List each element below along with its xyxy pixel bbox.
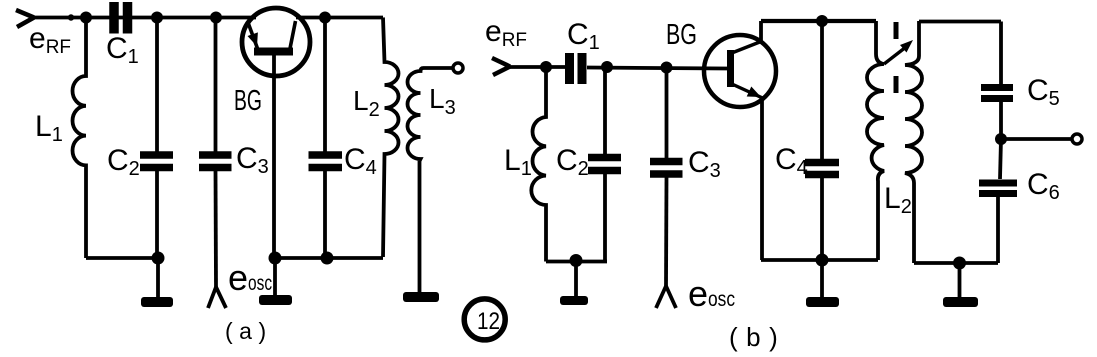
inductor L2 (a) — [383, 18, 399, 258]
svg-text:C2: C2 — [556, 144, 589, 180]
ground tank2 (b) — [943, 297, 978, 307]
svg-text:C4: C4 — [775, 143, 808, 179]
ground stub left (a) — [156, 258, 160, 297]
transformer core dash upper — [894, 22, 899, 39]
wire bottom rail (b left) — [546, 260, 607, 264]
svg-text:L2: L2 — [884, 182, 912, 218]
capacitor C1 (b) — [570, 53, 583, 84]
transformer adjust arrow — [884, 40, 913, 64]
wire base lead (a) — [272, 55, 276, 258]
node C2 top (b) — [601, 61, 613, 73]
capacitor C2 (b) — [588, 67, 621, 262]
node base bottom (a) — [269, 252, 282, 265]
wire tank1 top rail (b) — [761, 19, 876, 23]
svg-text:C4: C4 — [344, 143, 377, 179]
svg-text:eosc: eosc — [688, 273, 735, 314]
svg-text:L3: L3 — [429, 83, 456, 119]
svg-text:C5: C5 — [1027, 74, 1060, 110]
svg-text:L1: L1 — [35, 110, 63, 146]
node C2 top (a) — [151, 12, 163, 24]
wire tank2 right side upper (b) — [999, 22, 1003, 85]
svg-text:eosc: eosc — [228, 257, 272, 298]
svg-text:BG: BG — [666, 19, 697, 51]
transistor BG (b) — [704, 35, 776, 107]
capacitor C6 (b) — [979, 139, 1017, 263]
wire top rail (b) — [505, 67, 727, 69]
wire tank2 bottom rail (b) — [914, 261, 998, 265]
svg-text:L2: L2 — [353, 85, 380, 121]
capacitor C1 (a) — [114, 2, 128, 34]
inductor L3 (a) — [408, 68, 453, 292]
node C3 top (b) — [661, 62, 673, 74]
svg-text:C3: C3 — [236, 142, 269, 178]
wire emitter lead (b) — [760, 97, 764, 260]
terminal circle L3 (a) — [453, 63, 463, 73]
input arrow e_RF (b) — [492, 58, 510, 75]
capacitor C3 (a) — [199, 18, 232, 168]
node ground (b left) — [570, 254, 583, 267]
node C4 top (b) — [816, 15, 828, 27]
wire tank2 top rail (b) — [919, 20, 1001, 24]
figure badge 12 — [464, 299, 505, 340]
ground stub tank1 (b) — [820, 260, 824, 298]
svg-text:eRF: eRF — [485, 15, 527, 51]
svg-text:C1: C1 — [567, 18, 600, 54]
wire C3 to e_osc terminal (b) — [664, 178, 668, 287]
node ground tank1 (b) — [816, 254, 829, 267]
svg-text:C2: C2 — [107, 144, 140, 180]
svg-text:BG: BG — [234, 85, 262, 117]
wire output (b) — [1001, 137, 1072, 141]
wire tank1 bottom rail (b) — [761, 258, 878, 262]
ground stub (b left) — [574, 261, 578, 299]
wire C3 to e_osc terminal (a) — [214, 171, 218, 287]
svg-text:C3: C3 — [688, 146, 721, 182]
svg-text:eRF: eRF — [29, 22, 71, 58]
node C3 top (a) — [210, 12, 222, 24]
svg-text:C1: C1 — [106, 32, 139, 68]
ground tank1 (b) — [806, 297, 839, 307]
capacitor C3 (b) — [650, 68, 683, 175]
svg-text:12: 12 — [477, 308, 500, 335]
inductor L1 (a) — [73, 18, 86, 259]
svg-text:C6: C6 — [1027, 168, 1060, 204]
transformer secondary winding L2 (b) — [905, 21, 922, 263]
transformer core dash lower — [894, 76, 899, 93]
capacitor C5 (b) — [981, 88, 1013, 140]
input arrow e_RF (a) — [16, 10, 34, 27]
terminal e_osc fork (b) — [656, 286, 676, 308]
ground L3 (a) — [403, 292, 439, 302]
wire top rail (a) transistor to L2 corner — [296, 16, 383, 20]
transformer primary winding (b) — [867, 21, 884, 260]
terminal e_osc fork (a) — [208, 287, 226, 308]
capacitor C4 (a) — [309, 18, 343, 259]
capacitor C2 (a) — [140, 18, 173, 259]
svg-text:(b): (b) — [729, 322, 786, 352]
node ground left (a) — [152, 252, 165, 265]
inductor L1 (b) — [531, 67, 546, 262]
node ground tank2 (b) — [953, 257, 966, 270]
ground (b left) — [560, 296, 588, 305]
wire bottom rail left (a) — [86, 256, 158, 260]
node output tap (b) — [995, 133, 1007, 145]
ground mid (a) — [259, 295, 292, 305]
ground stub tank2 (b) — [958, 263, 962, 298]
ground left (a) — [141, 297, 173, 307]
transistor BG (a) — [242, 8, 310, 76]
node C4 bottom (a) — [321, 252, 334, 265]
node blob on input wire — [68, 14, 74, 20]
wire collector lead (b) — [759, 21, 763, 43]
wire bottom rail right (a) — [274, 256, 383, 260]
terminal circle output (b) — [1072, 134, 1082, 144]
node C4 top (a) — [319, 12, 331, 24]
node L1 top (a) — [80, 12, 92, 24]
svg-text:L1: L1 — [504, 144, 532, 180]
capacitor C4 (b) — [805, 21, 839, 260]
ground stub mid (a) — [273, 258, 277, 296]
svg-text:(a): (a) — [225, 318, 273, 344]
wire top rail (a) from arrow to transistor — [30, 16, 256, 20]
node L1 top (b) — [540, 61, 552, 73]
